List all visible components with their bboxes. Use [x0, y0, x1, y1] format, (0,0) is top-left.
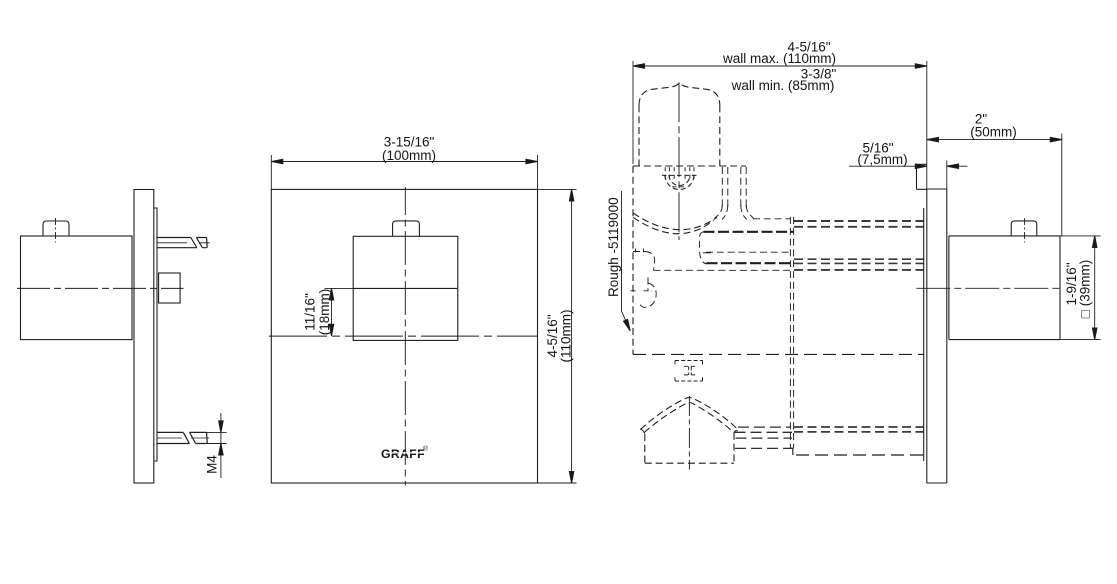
svg-text:□ (39mm): □ (39mm)	[1078, 260, 1093, 318]
svg-text:(7,5mm): (7,5mm)	[857, 152, 907, 167]
middle pipe run	[794, 259, 924, 263]
svg-text:(18mm): (18mm)	[317, 289, 332, 336]
knob body side	[21, 236, 133, 340]
dome sides	[639, 105, 720, 166]
svg-text:(50mm): (50mm)	[970, 125, 1017, 140]
screw bottom	[157, 432, 209, 443]
centerline	[17, 287, 184, 289]
plate top/bottom	[927, 189, 947, 483]
svg-text:11/16": 11/16"	[303, 293, 318, 331]
4-5/16 dimension	[538, 189, 577, 483]
svg-text:M4: M4	[205, 455, 220, 474]
M4 dimension	[199, 413, 227, 478]
port upper left	[633, 251, 645, 253]
long line y270	[654, 269, 791, 271]
escutcheon plate front	[271, 189, 537, 483]
knob front	[353, 236, 458, 340]
bolt hole	[665, 175, 694, 190]
horizontal centerline	[269, 335, 538, 337]
body bottom long line	[633, 353, 924, 355]
capsule union	[704, 231, 794, 233]
tent centerline	[688, 396, 690, 470]
valve hidden body	[631, 82, 924, 469]
bottom pipe run	[794, 427, 924, 432]
dome centerline	[678, 82, 680, 240]
screw top	[157, 238, 209, 248]
back plate	[154, 208, 157, 461]
body left edge	[632, 166, 634, 354]
skirt arcs	[633, 213, 717, 230]
knob seam line	[353, 287, 457, 289]
svg-text:Rough -5119000: Rough -5119000	[606, 197, 621, 297]
vertical centerline	[404, 187, 406, 486]
plate front + extension	[926, 61, 928, 189]
bottom long dash	[793, 448, 924, 455]
port lower left	[647, 278, 649, 292]
svg-text:GRAFF: GRAFF	[381, 447, 425, 461]
top pipe run	[794, 221, 924, 227]
svg-text:®: ®	[423, 445, 428, 453]
sleeve line	[923, 208, 925, 461]
body top edge	[633, 165, 746, 167]
1-9/16 dimension	[1060, 236, 1101, 340]
escutcheon plate side	[134, 190, 154, 484]
plate back + extension	[946, 161, 948, 190]
short lines from arch	[735, 427, 793, 448]
pipe flare	[715, 205, 755, 220]
svg-text:wall max. (110mm): wall max. (110mm)	[722, 51, 836, 66]
knob body	[948, 236, 950, 340]
seam extension	[325, 287, 354, 289]
centerline	[916, 287, 1063, 289]
knob tab side	[43, 221, 69, 236]
outlet pipe up walls	[722, 167, 746, 207]
tent arch inner	[644, 403, 733, 433]
svg-text:wall min. (85mm): wall min. (85mm)	[731, 78, 835, 93]
svg-text:(110mm): (110mm)	[559, 309, 574, 362]
valve stem	[159, 273, 181, 303]
knob tab front	[393, 221, 420, 236]
tent sides/bottom	[645, 433, 734, 463]
11/16 dimension	[331, 288, 333, 335]
svg-text:(100mm): (100mm)	[382, 148, 436, 163]
top tab	[917, 164, 927, 189]
wall plate section	[916, 61, 1063, 483]
spool detail	[675, 361, 703, 382]
vertical double line	[790, 217, 793, 448]
knob tab	[1011, 221, 1037, 236]
tab centerline	[55, 218, 57, 243]
tent corners	[640, 429, 738, 434]
pipe line right	[753, 218, 790, 220]
dome top	[639, 84, 720, 106]
tent arch outer	[641, 398, 738, 430]
